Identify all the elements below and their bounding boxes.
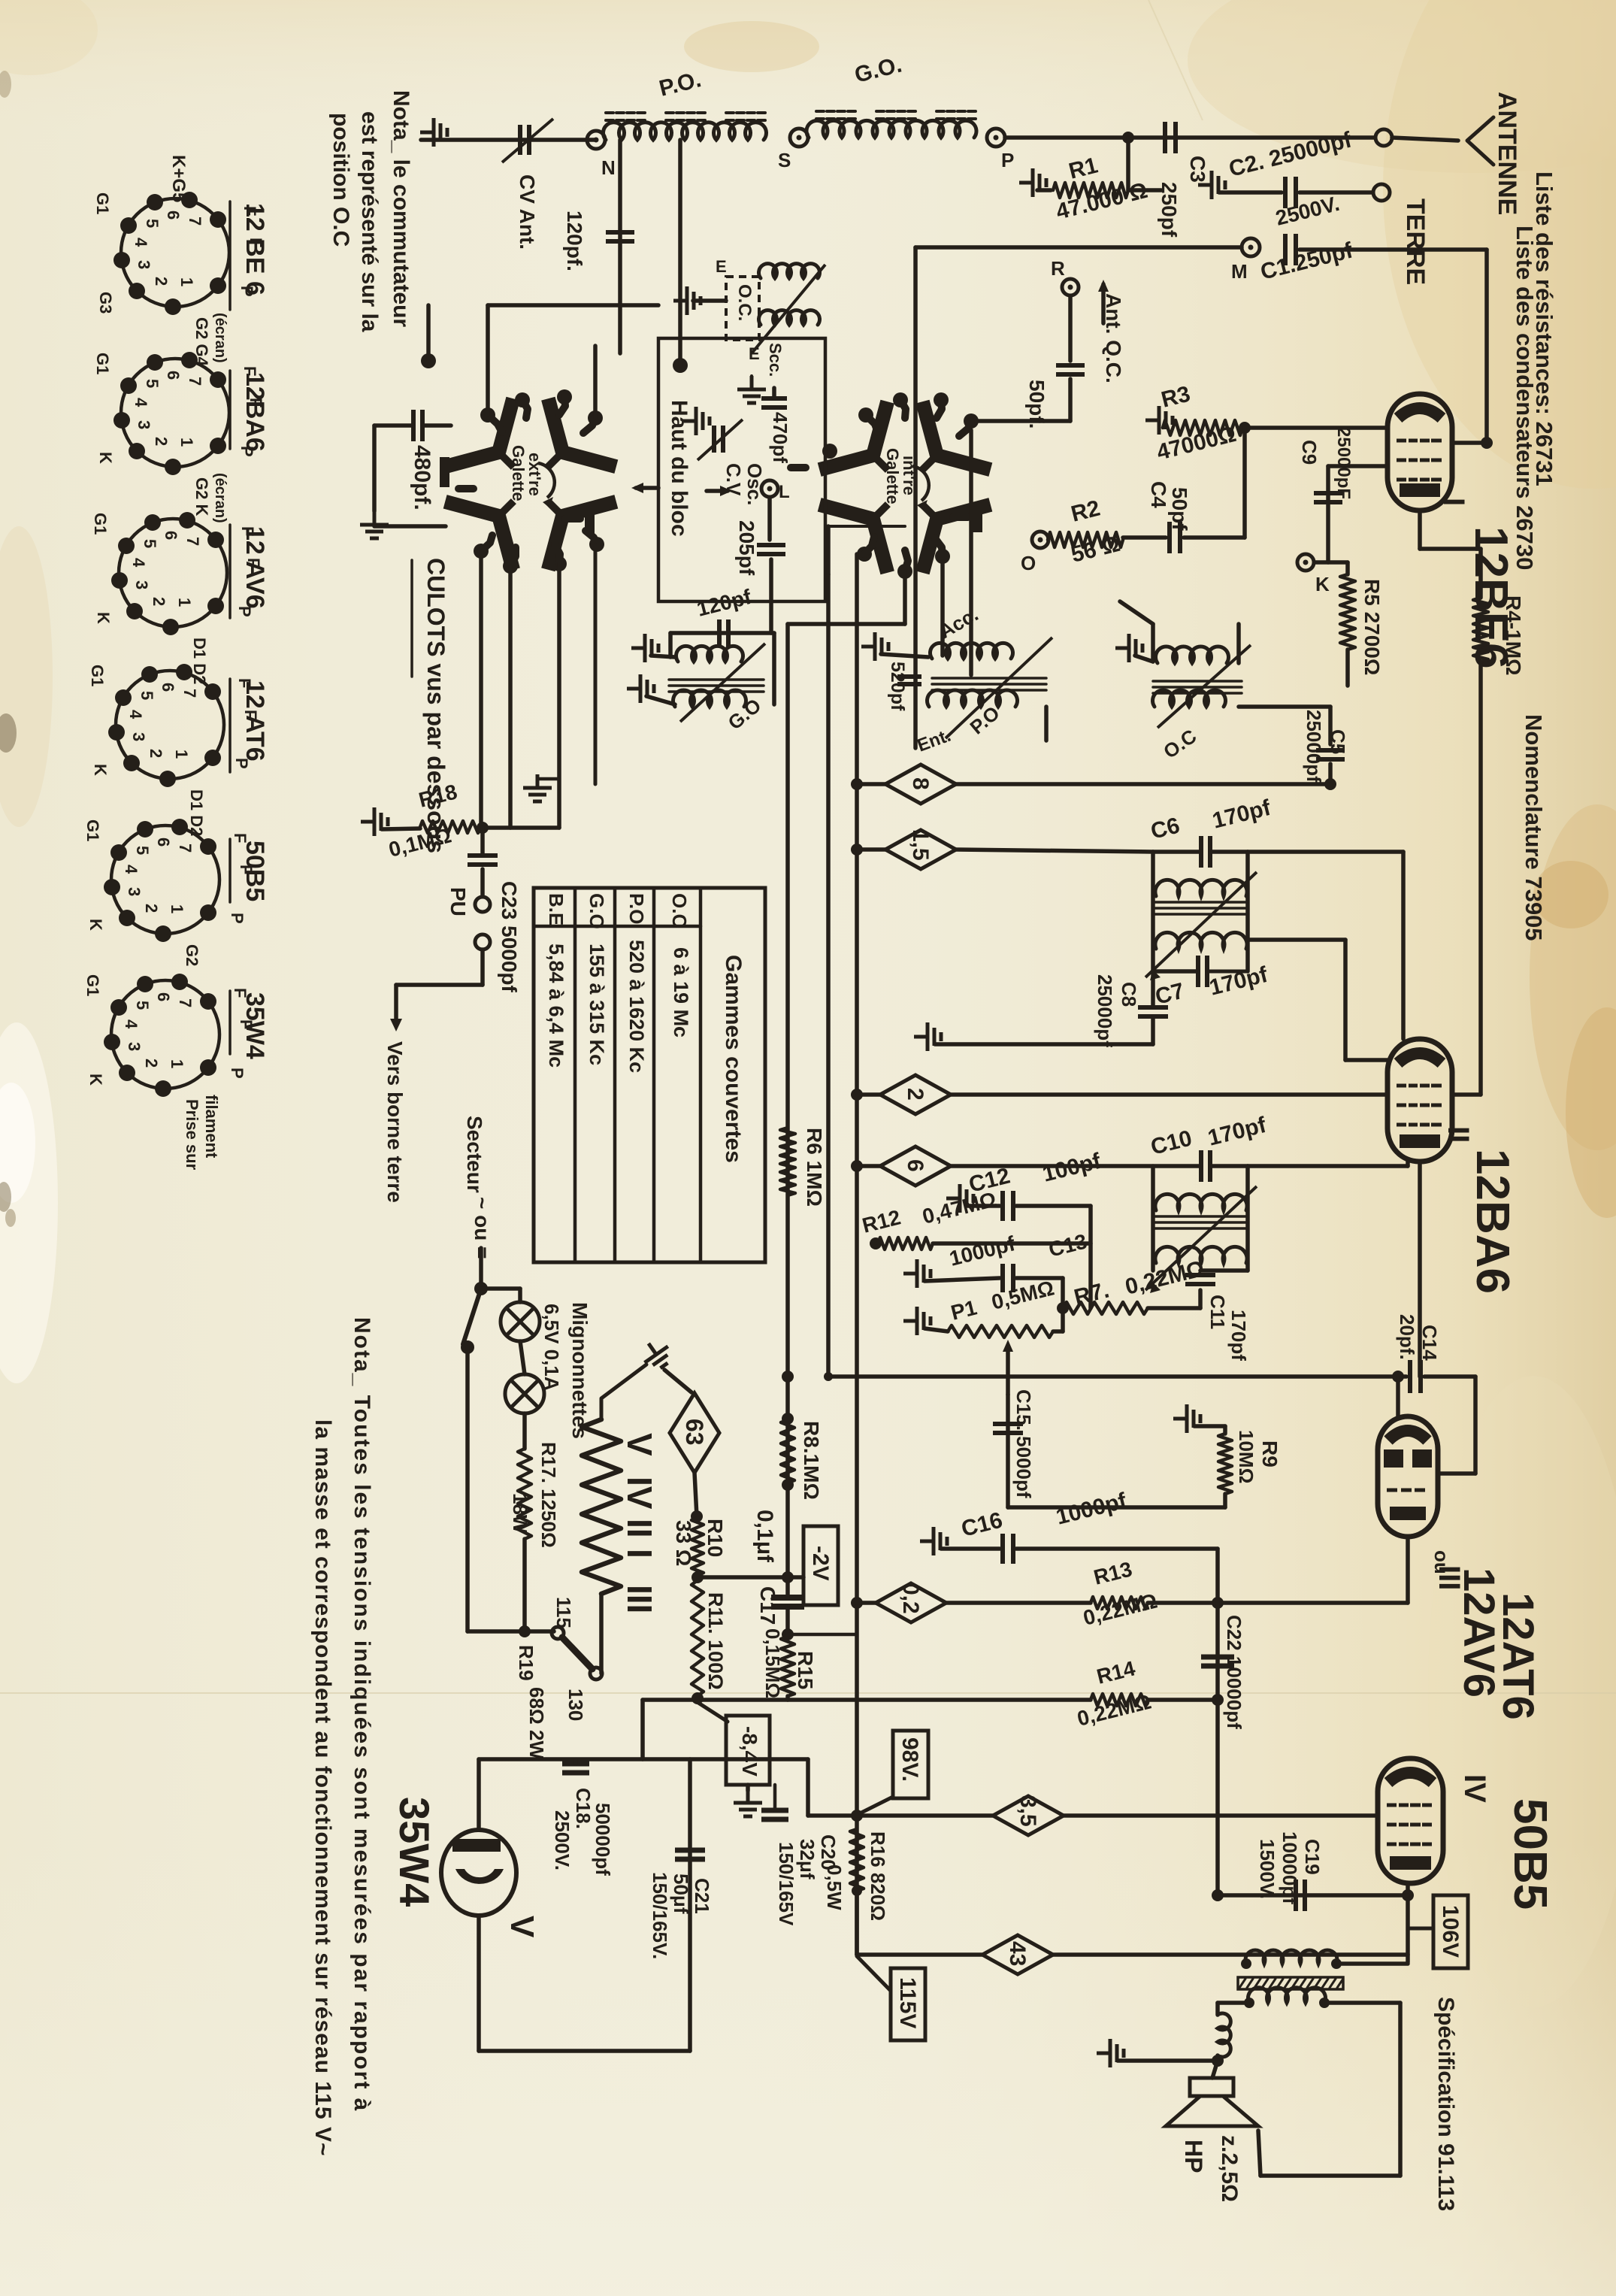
svg-text:G2 G4: G2 G4 [192, 317, 211, 367]
svg-text:C11: C11 [1206, 1295, 1229, 1329]
svg-text:z.2,5Ω: z.2,5Ω [1217, 2135, 1242, 2202]
svg-text:Galette: Galette [883, 448, 902, 504]
svg-text:II: II [620, 1519, 659, 1538]
svg-text:K: K [86, 919, 105, 931]
svg-text:115V: 115V [895, 1977, 920, 2028]
svg-text:ANTENNE: ANTENNE [1493, 92, 1521, 215]
svg-text:I: I [1437, 498, 1470, 506]
svg-text:R: R [1051, 257, 1065, 280]
svg-text:C4: C4 [1147, 481, 1170, 508]
svg-text:2: 2 [147, 749, 165, 758]
svg-text:D1 D2: D1 D2 [190, 638, 209, 684]
svg-text:6: 6 [154, 838, 173, 847]
svg-text:K: K [94, 612, 113, 624]
svg-text:1: 1 [168, 1059, 186, 1068]
svg-text:130: 130 [564, 1689, 587, 1721]
svg-text:F: F [241, 366, 259, 376]
svg-text:7: 7 [176, 844, 195, 853]
svg-text:S: S [778, 149, 791, 171]
svg-text:3: 3 [125, 1042, 144, 1051]
svg-text:P: P [238, 446, 256, 457]
svg-text:3,5: 3,5 [1015, 1795, 1040, 1827]
svg-text:2: 2 [152, 437, 171, 446]
svg-text:C15. 5000pf: C15. 5000pf [1012, 1389, 1035, 1498]
svg-text:F: F [231, 988, 250, 998]
svg-text:V: V [504, 1916, 540, 1938]
svg-text:Nota_ Toutes les tensions indi: Nota_ Toutes les tensions indiquées sont… [350, 1317, 374, 2112]
svg-text:150/165V: 150/165V [775, 1842, 797, 1926]
svg-text:3: 3 [135, 260, 153, 269]
svg-text:F: F [238, 526, 257, 536]
svg-text:6: 6 [164, 211, 183, 220]
svg-text:5: 5 [133, 1001, 152, 1010]
svg-text:18W: 18W [509, 1493, 531, 1534]
svg-text:G2 K: G2 K [192, 477, 211, 516]
svg-text:II: II [1442, 1126, 1475, 1143]
svg-text:0,2: 0,2 [898, 1583, 923, 1614]
svg-text:O.C: O.C [668, 893, 691, 928]
svg-text:8: 8 [908, 777, 933, 790]
svg-text:2: 2 [903, 1088, 928, 1101]
svg-text:R9: R9 [1258, 1440, 1282, 1468]
svg-text:3: 3 [132, 580, 151, 589]
svg-text:4: 4 [126, 710, 145, 719]
svg-text:6: 6 [154, 992, 173, 1001]
svg-text:1: 1 [172, 750, 191, 759]
svg-text:12BA6: 12BA6 [241, 372, 269, 452]
svg-text:TERRE: TERRE [1401, 198, 1430, 285]
svg-text:12 BE 6: 12 BE 6 [241, 203, 269, 295]
svg-text:6,5V 0,1A: 6,5V 0,1A [540, 1304, 563, 1391]
svg-text:-8,4V: -8,4V [738, 1726, 761, 1777]
svg-text:155 à 315 Kc: 155 à 315 Kc [586, 944, 608, 1065]
svg-text:est représenté sur la: est représenté sur la [357, 111, 382, 332]
svg-text:4: 4 [132, 238, 150, 247]
svg-text:III: III [620, 1585, 659, 1613]
svg-text:1: 1 [175, 598, 194, 607]
svg-text:-2V: -2V [808, 1546, 833, 1581]
svg-text:68Ω 2W: 68Ω 2W [525, 1687, 548, 1759]
svg-text:5: 5 [143, 219, 162, 228]
svg-text:R16 820Ω: R16 820Ω [867, 1831, 889, 1921]
svg-text:int're: int're [900, 456, 918, 495]
svg-text:M: M [1231, 260, 1248, 283]
svg-text:10MΩ: 10MΩ [1235, 1430, 1257, 1483]
svg-text:IV: IV [620, 1477, 659, 1510]
svg-text:C19: C19 [1301, 1839, 1324, 1875]
svg-text:520pf: 520pf [887, 662, 908, 711]
svg-text:R17. 1250Ω: R17. 1250Ω [537, 1442, 560, 1548]
svg-text:(écran): (écran) [212, 313, 228, 363]
svg-text:1: 1 [177, 438, 196, 447]
svg-text:1,5: 1,5 [908, 829, 933, 861]
svg-text:50μf: 50μf [670, 1873, 692, 1914]
svg-text:B.E: B.E [545, 893, 567, 925]
svg-text:V: V [620, 1433, 659, 1456]
svg-text:7: 7 [180, 689, 199, 698]
svg-text:43: 43 [1005, 1941, 1030, 1966]
svg-text:IV: IV [1458, 1774, 1491, 1803]
svg-text:HP: HP [1180, 2140, 1207, 2173]
svg-text:C14: C14 [1418, 1325, 1441, 1361]
svg-text:R11. 100Ω: R11. 100Ω [704, 1592, 727, 1690]
svg-text:32μf: 32μf [796, 1839, 819, 1880]
svg-text:5: 5 [133, 846, 152, 855]
svg-text:12 AT6: 12 AT6 [241, 680, 269, 762]
svg-text:520 à 1620 Kc: 520 à 1620 Kc [625, 940, 648, 1073]
svg-text:(écran): (écran) [212, 473, 228, 523]
svg-text:F: F [237, 865, 256, 874]
svg-text:4: 4 [129, 558, 148, 568]
svg-text:0,15MΩ: 0,15MΩ [761, 1628, 784, 1698]
svg-text:R5 2700Ω: R5 2700Ω [1360, 579, 1384, 675]
svg-text:4: 4 [132, 398, 150, 407]
svg-text:12AT6: 12AT6 [1493, 1592, 1542, 1720]
svg-text:7: 7 [176, 998, 195, 1007]
svg-text:6: 6 [164, 371, 183, 380]
svg-text:F: F [241, 206, 259, 216]
svg-text:250pf: 250pf [1158, 182, 1181, 238]
svg-text:7: 7 [186, 217, 204, 226]
svg-text:98V.: 98V. [897, 1737, 922, 1782]
svg-text:P: P [228, 913, 247, 924]
svg-text:F: F [231, 833, 250, 843]
svg-text:F: F [235, 678, 254, 688]
svg-text:12BA6: 12BA6 [1466, 1149, 1518, 1294]
svg-text:E: E [716, 257, 727, 276]
svg-text:Nota_ le commutateur: Nota_ le commutateur [389, 90, 413, 327]
svg-text:K: K [91, 764, 110, 776]
svg-text:5: 5 [138, 691, 156, 700]
svg-text:33 Ω: 33 Ω [672, 1520, 695, 1566]
svg-text:115: 115 [552, 1597, 575, 1628]
svg-text:filament: filament [202, 1095, 221, 1159]
svg-text:G1: G1 [83, 974, 102, 996]
svg-text:K: K [1315, 573, 1330, 595]
svg-text:3: 3 [125, 887, 144, 896]
svg-text:2: 2 [142, 1059, 161, 1068]
svg-text:R4-1MΩ: R4-1MΩ [1502, 595, 1525, 675]
svg-text:50pf: 50pf [1168, 487, 1191, 531]
svg-text:K: K [86, 1074, 105, 1086]
svg-text:Prise sur: Prise sur [183, 1099, 201, 1171]
svg-text:0,1μf: 0,1μf [752, 1510, 777, 1563]
svg-text:Liste des condensateurs 26730: Liste des condensateurs 26730 [1512, 226, 1538, 570]
svg-text:1: 1 [168, 904, 186, 913]
svg-text:D1 D2: D1 D2 [187, 789, 206, 836]
svg-text:6: 6 [159, 683, 177, 692]
svg-text:P: P [232, 758, 251, 769]
svg-text:3: 3 [129, 732, 148, 741]
svg-text:G3: G3 [96, 292, 115, 314]
svg-text:R8.1MΩ: R8.1MΩ [800, 1421, 823, 1500]
svg-text:position O.C: position O.C [328, 113, 353, 247]
svg-text:C9: C9 [1298, 440, 1321, 465]
svg-text:2: 2 [142, 904, 161, 913]
svg-text:3: 3 [135, 420, 153, 429]
svg-text:C17: C17 [756, 1586, 779, 1625]
svg-text:2500V.: 2500V. [551, 1810, 573, 1870]
svg-text:R15: R15 [794, 1651, 817, 1689]
svg-text:P: P [1001, 149, 1014, 171]
svg-text:C3: C3 [1186, 156, 1209, 183]
svg-text:O.C.: O.C. [734, 284, 755, 321]
svg-text:C21: C21 [691, 1878, 713, 1914]
svg-text:F: F [247, 238, 265, 247]
svg-text:F: F [244, 558, 263, 568]
svg-text:205pf: 205pf [735, 520, 758, 576]
svg-text:63: 63 [681, 1419, 708, 1446]
svg-text:C5: C5 [1327, 729, 1349, 754]
svg-text:1: 1 [177, 277, 196, 286]
svg-text:P: P [238, 286, 256, 297]
svg-text:N: N [601, 156, 616, 179]
svg-text:10000pf: 10000pf [1279, 1831, 1301, 1904]
svg-text:25000pF: 25000pF [1333, 427, 1354, 499]
svg-text:6 à 19 Mc: 6 à 19 Mc [670, 947, 692, 1037]
svg-text:ext're: ext're [525, 453, 544, 496]
svg-text:PU: PU [446, 887, 470, 916]
svg-text:CULOTS vus par dessous: CULOTS vus par dessous [422, 558, 449, 853]
svg-text:R6 1MΩ: R6 1MΩ [803, 1128, 826, 1207]
svg-text:G1: G1 [88, 665, 107, 686]
svg-text:50000pf: 50000pf [592, 1803, 614, 1876]
svg-text:6: 6 [903, 1159, 928, 1172]
svg-text:106V: 106V [1438, 1905, 1463, 1958]
svg-text:C.V: C.V [722, 463, 745, 496]
svg-text:480pf.: 480pf. [410, 445, 434, 510]
svg-text:R19: R19 [515, 1645, 537, 1681]
svg-text:CV Ant.: CV Ant. [516, 174, 539, 250]
svg-text:5: 5 [141, 539, 159, 548]
svg-text:120pf.: 120pf. [563, 211, 586, 271]
svg-text:Mignonnettes: Mignonnettes [568, 1302, 592, 1439]
svg-text:C22 10000pf: C22 10000pf [1223, 1615, 1245, 1729]
svg-text:C18.: C18. [572, 1788, 595, 1829]
svg-text:R10: R10 [704, 1519, 727, 1557]
svg-text:25000pf: 25000pf [1303, 710, 1325, 783]
svg-text:25000pf: 25000pf [1094, 974, 1116, 1047]
svg-text:2: 2 [152, 277, 171, 286]
svg-text:6: 6 [162, 531, 180, 540]
svg-text:0,5W: 0,5W [823, 1864, 846, 1910]
svg-text:Secteur: Secteur [463, 1116, 486, 1193]
svg-text:7: 7 [186, 377, 204, 386]
svg-text:K: K [96, 452, 115, 464]
svg-text:F: F [237, 1019, 256, 1029]
svg-text:G1: G1 [93, 192, 112, 214]
svg-text:50B5: 50B5 [1504, 1798, 1556, 1910]
svg-text:C23 5000pf: C23 5000pf [498, 881, 521, 993]
svg-text:5,84 à 6,4 Mc: 5,84 à 6,4 Mc [545, 944, 567, 1068]
svg-text:5: 5 [143, 379, 162, 388]
svg-text:P: P [228, 1068, 247, 1079]
svg-text:Spécification 91.113: Spécification 91.113 [1433, 1997, 1458, 2211]
svg-text:F: F [247, 398, 265, 407]
svg-text:I: I [620, 1549, 659, 1558]
svg-text:20pf.: 20pf. [1396, 1314, 1418, 1360]
svg-text:Scc.: Scc. [766, 343, 785, 377]
svg-text:G1: G1 [93, 353, 112, 374]
svg-text:G.O: G.O [586, 893, 608, 929]
svg-text:O: O [1021, 552, 1036, 574]
svg-text:L: L [779, 482, 790, 502]
svg-text:Gammes couvertes: Gammes couvertes [721, 955, 746, 1163]
svg-text:2: 2 [150, 597, 168, 606]
svg-text:P.O: P.O [625, 893, 648, 924]
svg-text:la masse et correspondent au f: la masse et correspondent au fonctionnem… [310, 1419, 335, 2157]
svg-text:470pf: 470pf [769, 412, 791, 463]
svg-text:G1: G1 [83, 819, 102, 841]
svg-text:35W4: 35W4 [391, 1797, 438, 1907]
svg-text:G2: G2 [183, 944, 201, 966]
svg-text:150/165V.: 150/165V. [649, 1872, 671, 1959]
svg-text:P: P [235, 606, 254, 617]
svg-text:1500V.: 1500V. [1256, 1839, 1279, 1899]
svg-text:Vers borne terre: Vers borne terre [383, 1041, 407, 1203]
svg-text:F: F [241, 710, 260, 719]
svg-text:Ant. Q.C.: Ant. Q.C. [1102, 293, 1125, 383]
svg-text:170pf: 170pf [1227, 1310, 1250, 1361]
svg-text:C8: C8 [1118, 982, 1140, 1007]
svg-text:K+G5: K+G5 [168, 155, 189, 202]
svg-text:Galette: Galette [509, 445, 528, 501]
svg-text:7: 7 [183, 537, 202, 546]
svg-text:4: 4 [122, 1019, 141, 1029]
svg-text:4: 4 [122, 865, 141, 874]
svg-text:G1: G1 [91, 513, 110, 535]
svg-text:Nomenclature 73905: Nomenclature 73905 [1521, 714, 1547, 941]
